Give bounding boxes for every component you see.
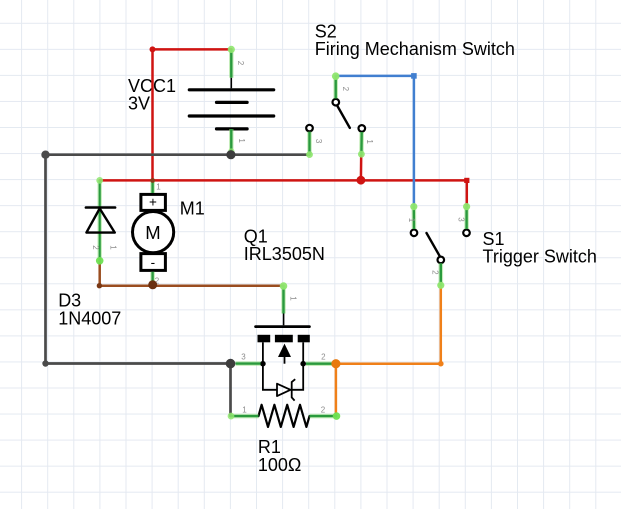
S2 pin 1	[358, 132, 365, 158]
motor pin label 2	[155, 277, 160, 286]
wire blue S2 to S1	[336, 73, 417, 206]
svg-text:2: 2	[341, 87, 350, 92]
switch S1	[411, 230, 470, 264]
node orange junction	[331, 359, 340, 368]
svg-text:1: 1	[237, 138, 246, 143]
svg-text:1: 1	[407, 218, 416, 223]
diode D3	[86, 177, 115, 265]
node motor-brown junction	[148, 280, 157, 289]
mosfet pin label 3	[241, 352, 246, 361]
svg-text:M: M	[145, 222, 160, 243]
S2 pin label 2	[341, 87, 350, 92]
battery pin label 2	[236, 61, 245, 66]
wire gray left vertical and bottom	[42, 155, 230, 367]
svg-text:2: 2	[91, 245, 100, 250]
node Q1 source junction	[226, 359, 236, 369]
label M1	[180, 198, 205, 218]
battery VCC1	[189, 78, 273, 129]
S2 pin label 1	[365, 139, 374, 144]
svg-text:100Ω: 100Ω	[258, 455, 302, 475]
mosfet pin label 2	[321, 352, 326, 361]
svg-text:1N4007: 1N4007	[58, 309, 121, 329]
wire gray top horizontal	[41, 151, 309, 159]
svg-text:3: 3	[456, 217, 465, 222]
S2 pin 3	[306, 132, 313, 158]
battery pin 2	[228, 46, 235, 78]
wire gray down to R1	[229, 364, 232, 416]
mosfet pin label 1	[289, 296, 298, 301]
diode pin label 2	[91, 245, 100, 250]
resistor pin 1	[228, 413, 259, 420]
resistor pin 2	[310, 412, 341, 420]
wire red main horizontal	[100, 178, 470, 207]
node battery-gnd junction	[226, 150, 235, 159]
label S2	[315, 21, 515, 59]
svg-text:2: 2	[321, 405, 326, 414]
S1 pin label 2	[430, 270, 439, 275]
mosfet Q1	[256, 314, 310, 367]
svg-text:+: +	[149, 194, 157, 209]
wire red S2 pin1 to node	[360, 155, 363, 180]
resistor pin label 2	[321, 405, 326, 414]
mosfet pin 3	[236, 361, 261, 366]
label D3	[58, 291, 121, 329]
label R1	[258, 437, 302, 475]
svg-text:2: 2	[430, 270, 439, 275]
svg-text:IRL3505N: IRL3505N	[244, 244, 325, 264]
S1 pin 1	[410, 203, 417, 229]
label S1	[483, 229, 597, 267]
wire orange S1 to R1	[336, 286, 444, 416]
label VCC1	[128, 76, 176, 113]
motor pin 2	[150, 272, 155, 285]
S1 pin 3	[463, 203, 470, 229]
svg-text:1: 1	[156, 182, 161, 191]
wire red battery top	[150, 46, 232, 180]
resistor pin label 1	[242, 405, 247, 414]
svg-text:-: -	[151, 255, 156, 270]
svg-text:2: 2	[321, 352, 326, 361]
wire brown D3 to Q1 gate	[97, 261, 284, 289]
S1 pin label 3	[456, 217, 465, 222]
S2 pin 2	[332, 72, 340, 98]
svg-text:1: 1	[289, 296, 298, 301]
node red junction	[357, 176, 366, 185]
motor M1	[133, 194, 174, 270]
node M1 pin1 junction	[150, 178, 155, 183]
svg-text:3V: 3V	[128, 94, 150, 114]
svg-text:1: 1	[108, 245, 117, 250]
mosfet pin 1 gate	[280, 282, 288, 313]
S1 pin label 1	[407, 218, 416, 223]
motor pin label 1	[156, 182, 161, 191]
svg-text:1: 1	[365, 139, 374, 144]
resistor R1	[259, 405, 310, 427]
svg-text:2: 2	[236, 61, 245, 66]
svg-text:1: 1	[242, 405, 247, 414]
svg-text:D3: D3	[58, 291, 81, 311]
label Q1	[244, 226, 325, 264]
switch S2	[306, 99, 365, 132]
diode pin label 1	[108, 245, 117, 250]
svg-text:M1: M1	[180, 198, 205, 218]
S2 pin label 3	[314, 139, 323, 144]
svg-text:Trigger Switch: Trigger Switch	[483, 247, 597, 267]
motor pin 1	[150, 180, 155, 193]
svg-text:3: 3	[314, 139, 323, 144]
battery pin 1	[228, 129, 234, 155]
svg-text:3: 3	[241, 352, 246, 361]
mosfet pin 2	[306, 361, 333, 366]
S1 pin 2	[437, 263, 444, 289]
mosfet body diode	[263, 364, 303, 401]
svg-text:Firing Mechanism Switch: Firing Mechanism Switch	[315, 39, 515, 59]
battery pin label 1	[237, 138, 246, 143]
